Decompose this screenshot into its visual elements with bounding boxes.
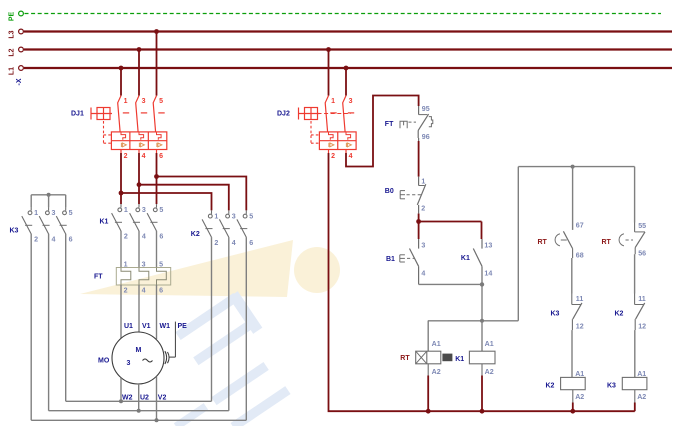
svg-text:4: 4 [142,153,146,160]
svg-text:3: 3 [232,212,236,220]
svg-text:W2: W2 [122,394,133,401]
svg-text:L1: L1 [9,67,16,75]
svg-text:95: 95 [422,105,430,113]
svg-text:3: 3 [142,260,146,268]
svg-text:1: 1 [124,260,128,268]
svg-text:3: 3 [421,242,425,250]
svg-text:2: 2 [331,153,335,160]
svg-text:56: 56 [638,250,646,258]
svg-text:3: 3 [142,206,146,214]
svg-text:-X: -X [16,78,23,85]
svg-text:FT: FT [94,273,103,280]
svg-text:K2: K2 [615,310,624,317]
svg-text:2: 2 [124,153,128,160]
svg-text:A2: A2 [575,393,584,401]
svg-text:5: 5 [159,98,163,105]
svg-text:68: 68 [576,252,584,260]
svg-text:4: 4 [232,239,236,247]
svg-text:12: 12 [576,322,584,330]
svg-text:2: 2 [421,204,425,212]
svg-text:2: 2 [214,239,218,247]
svg-text:5: 5 [159,260,163,268]
svg-text:PE: PE [9,12,16,22]
svg-text:MO: MO [98,358,110,365]
svg-text:U1: U1 [124,323,133,330]
svg-text:U2: U2 [140,394,149,401]
svg-text:A1: A1 [575,370,584,378]
svg-text:A2: A2 [432,368,441,376]
svg-text:FT: FT [385,121,394,128]
svg-text:K1: K1 [100,219,109,226]
svg-text:1: 1 [124,98,128,105]
svg-text:6: 6 [159,153,163,160]
svg-text:W1: W1 [160,323,171,330]
svg-text:2: 2 [124,287,128,295]
svg-text:5: 5 [159,206,163,214]
svg-text:K3: K3 [607,383,616,390]
svg-text:55: 55 [638,222,646,230]
svg-text:3: 3 [52,209,56,217]
svg-text:L3: L3 [9,30,16,38]
svg-text:V2: V2 [158,394,167,401]
svg-text:2: 2 [124,233,128,241]
svg-text:A2: A2 [637,393,646,401]
svg-text:PE: PE [178,323,188,330]
svg-text:4: 4 [52,236,56,244]
svg-text:A1: A1 [485,340,494,348]
svg-text:11: 11 [638,295,646,303]
svg-text:A2: A2 [485,368,494,376]
svg-text:2: 2 [34,236,38,244]
svg-text:A1: A1 [637,370,646,378]
svg-text:A1: A1 [432,340,441,348]
svg-text:6: 6 [69,236,73,244]
svg-text:1: 1 [124,206,128,214]
svg-text:3: 3 [349,98,353,105]
svg-text:13: 13 [484,242,492,250]
svg-text:K3: K3 [10,227,19,234]
svg-text:1: 1 [34,209,38,217]
svg-text:RT: RT [602,239,612,246]
svg-text:K2: K2 [191,231,200,238]
svg-text:5: 5 [69,209,73,217]
svg-text:B0: B0 [385,188,394,195]
svg-text:6: 6 [159,233,163,241]
svg-text:L2: L2 [9,48,16,56]
svg-text:K1: K1 [461,255,470,262]
svg-text:3: 3 [127,360,131,367]
svg-text:1: 1 [331,98,335,105]
svg-text:B1: B1 [386,256,395,263]
svg-text:96: 96 [422,133,430,141]
svg-text:5: 5 [249,212,253,220]
svg-text:11: 11 [576,295,584,303]
svg-text:4: 4 [142,287,146,295]
svg-text:6: 6 [249,239,253,247]
svg-text:DJ2: DJ2 [277,111,290,118]
svg-text:4: 4 [142,233,146,241]
svg-text:1: 1 [421,178,425,186]
svg-text:4: 4 [421,269,425,277]
svg-text:67: 67 [576,222,584,230]
svg-text:14: 14 [484,269,492,277]
svg-text:3: 3 [142,98,146,105]
svg-text:RT: RT [400,355,410,362]
svg-text:K3: K3 [551,310,560,317]
svg-text:4: 4 [349,153,353,160]
svg-text:K2: K2 [546,383,555,390]
svg-text:V1: V1 [142,323,151,330]
svg-text:1: 1 [214,212,218,220]
svg-text:12: 12 [638,322,646,330]
svg-text:M: M [136,347,142,354]
svg-text:K1: K1 [455,356,464,363]
svg-text:DJ1: DJ1 [71,111,84,118]
svg-text:6: 6 [159,287,163,295]
svg-text:RT: RT [538,239,548,246]
